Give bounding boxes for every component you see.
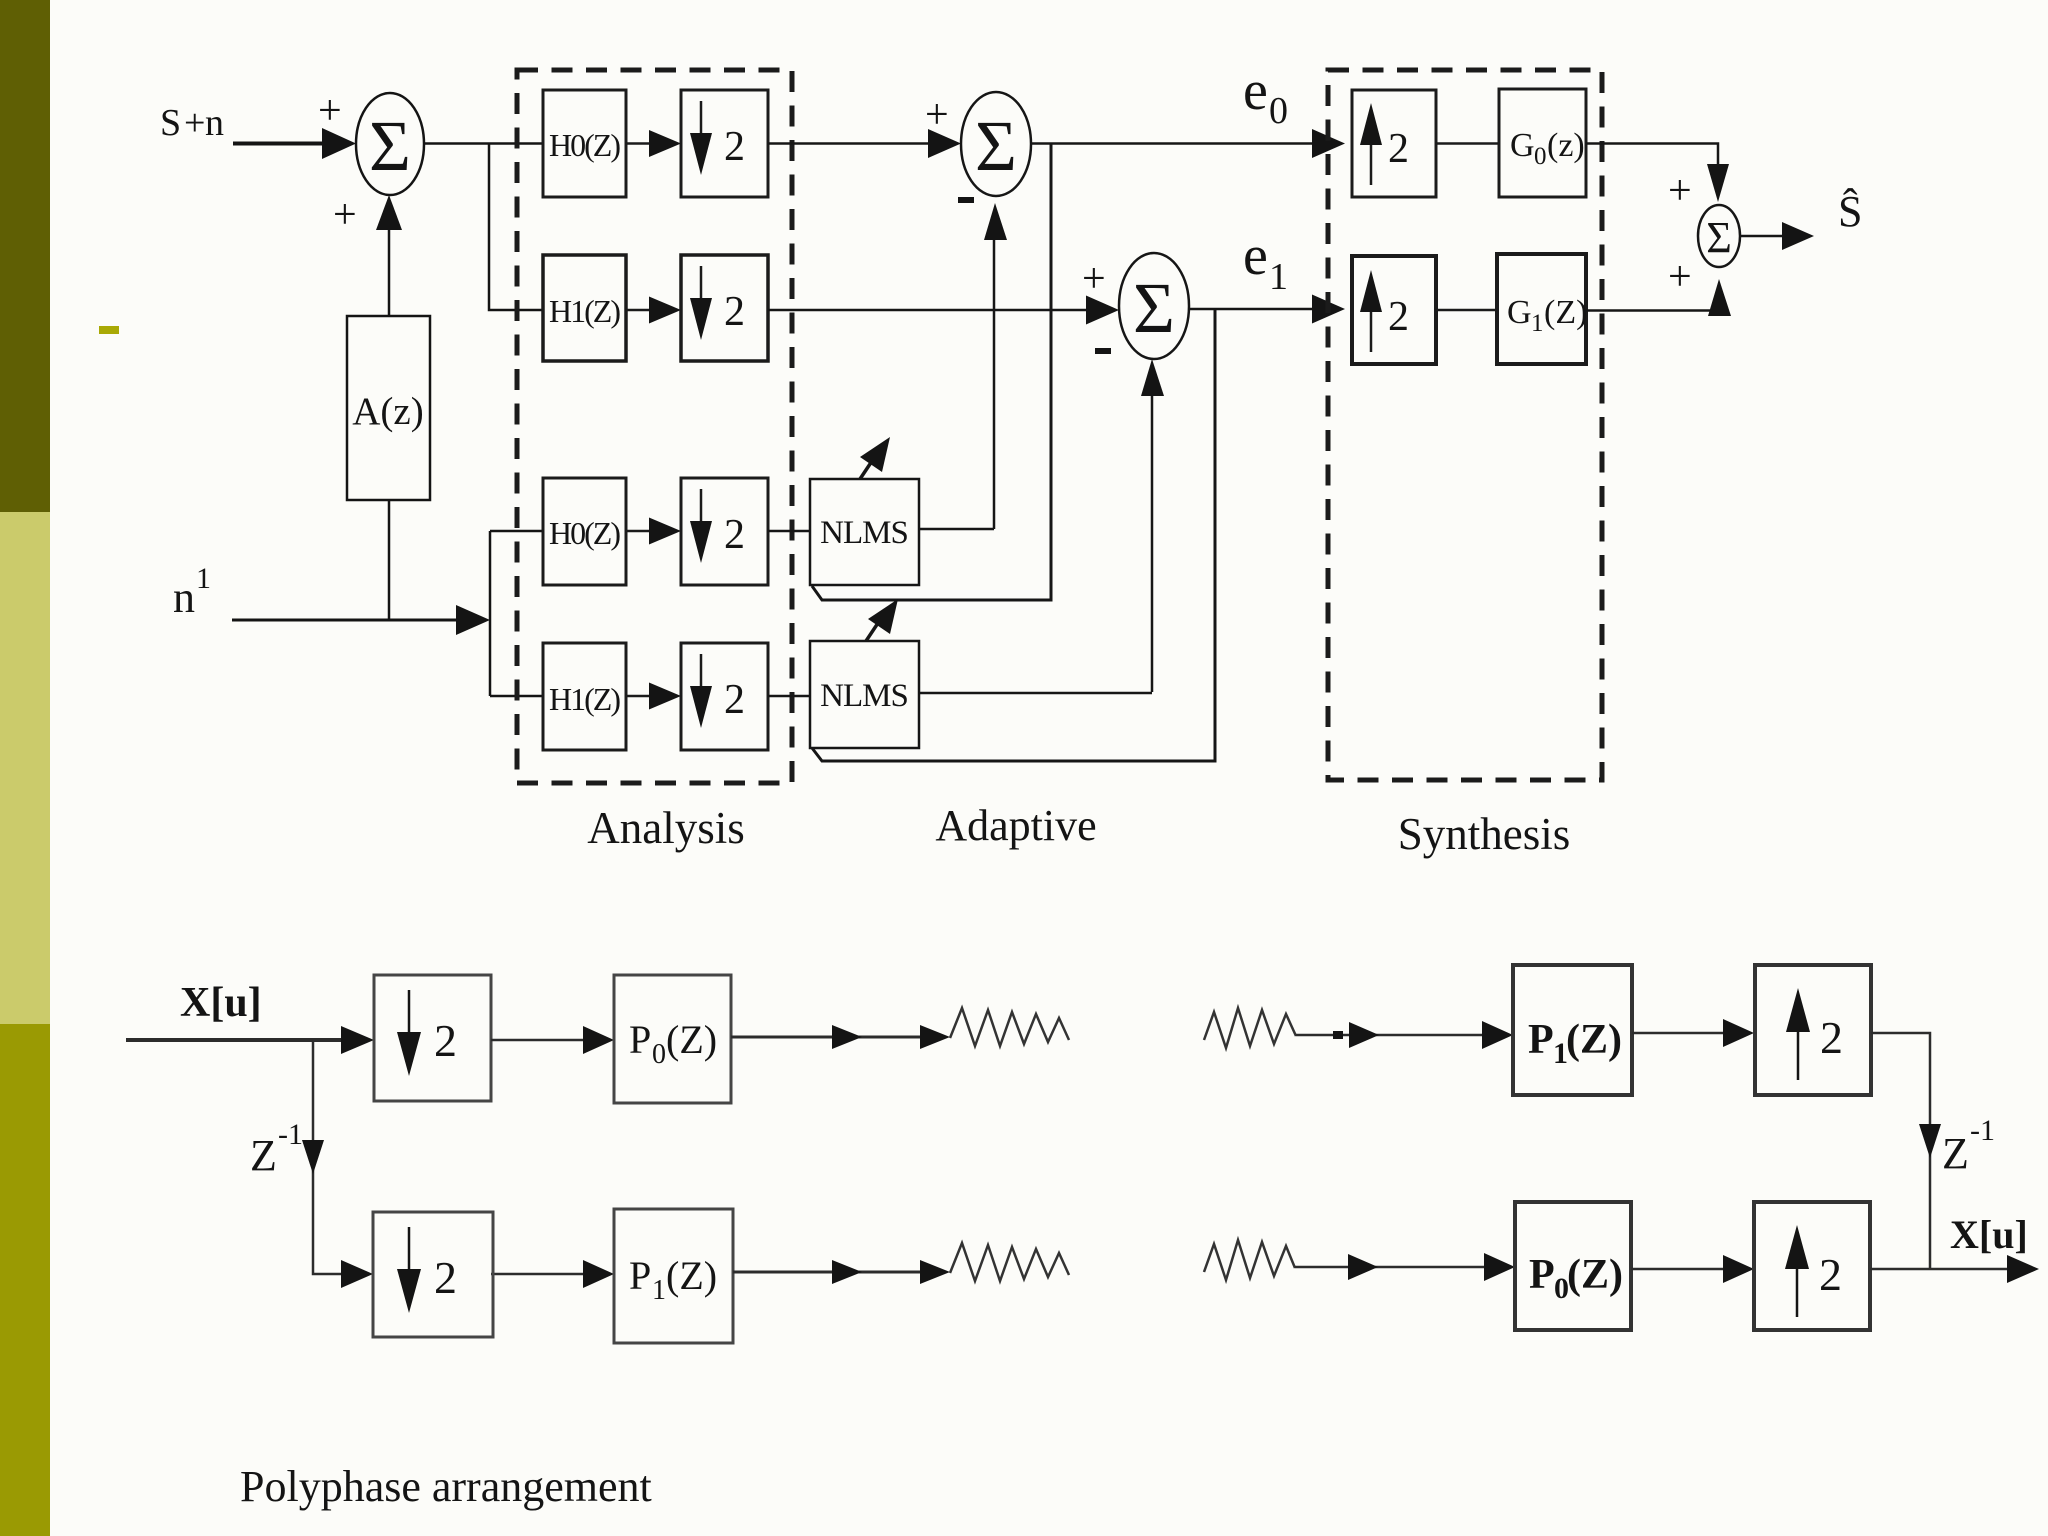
- block H0(Z) top: [543, 90, 626, 197]
- wire U3 output to delay column: [1871, 1033, 1930, 1269]
- svg-text:2: 2: [724, 124, 745, 170]
- wire D3 into NLMS1: [768, 530, 810, 533]
- arrow P0 to upsampler U4: [1631, 1255, 1754, 1283]
- wire G0 output to final summer: [1586, 144, 1729, 203]
- SECTION: bottom-right polyphase synthesis diagram: [1204, 965, 2039, 1330]
- svg-text:Adaptive: Adaptive: [935, 801, 1096, 850]
- svg-text:e: e: [1243, 225, 1268, 287]
- downsampler D4 arrow glyph: [690, 654, 745, 728]
- block P1(Z) right: [1513, 965, 1632, 1095]
- arrow H0 to downsampler D1: [626, 130, 681, 157]
- minus sign at S2 bottom input: [958, 197, 974, 203]
- svg-text:+: +: [1668, 168, 1692, 214]
- wire e0: S2 output to synthesis: [1031, 129, 1345, 158]
- arrow lower H1 to downsampler D4: [626, 683, 681, 710]
- svg-text:+: +: [925, 92, 949, 138]
- summer S2: [961, 92, 1031, 196]
- svg-text:P0(Z): P0(Z): [1529, 1252, 1623, 1305]
- upsampler U2 arrow glyph: [1360, 270, 1409, 352]
- block A(z): [347, 316, 430, 500]
- svg-text:Polyphase arrangement: Polyphase arrangement: [240, 1462, 652, 1511]
- wire S1 to H0 with branch node: [424, 142, 543, 145]
- SECTION: bottom-left polyphase analysis diagram: [126, 975, 1069, 1511]
- upsampler U3 box: [1755, 965, 1871, 1095]
- wire P1 output with arrowheads: [733, 1260, 950, 1284]
- svg-text:NLMS: NLMS: [820, 515, 908, 551]
- svg-text:Analysis: Analysis: [587, 803, 745, 853]
- svg-text:S: S: [160, 102, 181, 144]
- wire NLMS1 output right: [919, 528, 994, 531]
- arrow D5 to P0: [491, 1026, 614, 1054]
- svg-text:X[u]: X[u]: [180, 980, 262, 1026]
- downsampler D3 arrow glyph: [690, 489, 745, 563]
- adapt arrow on NLMS2: [866, 599, 898, 641]
- svg-text:2: 2: [434, 1015, 457, 1066]
- wire into lower H0: [490, 530, 543, 533]
- svg-text:n: n: [205, 102, 224, 144]
- svg-text:2: 2: [1388, 126, 1409, 172]
- block P0(Z) right: [1515, 1202, 1631, 1330]
- svg-text:H0(Z): H0(Z): [549, 515, 620, 551]
- downsampler D5 arrow glyph: [397, 990, 457, 1076]
- arrowhead delay branch mid-line: [302, 1140, 324, 1174]
- svg-text:NLMS: NLMS: [820, 678, 908, 714]
- wire branch column for lower filters: [489, 531, 492, 696]
- arrowhead into downsampler D5: [341, 1260, 373, 1288]
- wire D2 to summer S3: [768, 296, 1119, 325]
- block NLMS2: [810, 641, 919, 748]
- block G1(Z): [1497, 254, 1586, 364]
- squiggle output top-left: [950, 1008, 1069, 1046]
- svg-text:H1(Z): H1(Z): [549, 293, 620, 329]
- arrowhead delay column mid-line: [1919, 1124, 1941, 1158]
- arrow from A(z) into S1 bottom: [388, 210, 391, 316]
- svg-text:-1: -1: [1970, 1114, 1995, 1147]
- wire G1 output up into final summer: [1586, 279, 1731, 316]
- wire into lower H1: [490, 695, 543, 698]
- wire branch column with Z-1 delay: [313, 1040, 347, 1274]
- svg-text:H1(Z): H1(Z): [549, 681, 620, 717]
- block H0(Z) lower: [543, 478, 626, 585]
- arrow P1 to upsampler U3: [1632, 1019, 1754, 1047]
- svg-text:1: 1: [196, 562, 211, 595]
- svg-text:+: +: [1082, 256, 1106, 302]
- arrow S4 output to Shat: [1740, 222, 1814, 250]
- wire squiggle to P0 with arrowheads: [1295, 1253, 1515, 1281]
- arrow final X[n] output: [1870, 1255, 2039, 1283]
- downsampler D1 box: [681, 90, 768, 197]
- svg-text:+: +: [333, 192, 357, 238]
- downsampler D1 arrow glyph: [690, 101, 745, 175]
- upsampler U3 arrow glyph: [1786, 988, 1843, 1080]
- svg-text:+: +: [184, 102, 205, 144]
- dashed box Analysis: [517, 70, 792, 783]
- squiggle output bottom-left: [950, 1243, 1069, 1281]
- svg-text:2: 2: [724, 512, 745, 558]
- svg-text:2: 2: [1820, 1012, 1843, 1063]
- arrow NLMS1 output up into S2: [984, 203, 1007, 529]
- svg-text:2: 2: [1819, 1249, 1842, 1300]
- SECTION: top adaptive filterbank diagram: [160, 88, 543, 696]
- svg-text:e: e: [1243, 60, 1268, 122]
- svg-text:H0(Z): H0(Z): [549, 127, 620, 163]
- minus sign at S3 bottom input: [1095, 348, 1111, 354]
- upsampler U1 box: [1352, 90, 1436, 197]
- squiggle input bottom-right: [1204, 1240, 1295, 1280]
- svg-text:2: 2: [724, 677, 745, 723]
- svg-text:-1: -1: [278, 1118, 303, 1151]
- svg-text:X[u]: X[u]: [1950, 1212, 2028, 1257]
- svg-text:Ŝ: Ŝ: [1838, 187, 1862, 236]
- block P1(Z) left: [614, 1209, 733, 1343]
- squiggle input top-right: [1204, 1008, 1296, 1048]
- downsampler D2 arrow glyph: [690, 266, 745, 340]
- svg-text:Σ: Σ: [1133, 268, 1175, 348]
- upsampler U1 arrow glyph: [1360, 103, 1409, 185]
- svg-text:P1(Z): P1(Z): [1528, 1017, 1622, 1070]
- arrowhead into summer S1: [322, 128, 356, 159]
- svg-text:Σ: Σ: [369, 106, 411, 186]
- svg-text:2: 2: [1388, 294, 1409, 340]
- arrow lower H0 to downsampler D3: [626, 518, 681, 545]
- svg-text:0: 0: [1269, 90, 1288, 132]
- svg-text:P1(Z): P1(Z): [629, 1253, 717, 1306]
- wire branch down to H1 row: [489, 144, 543, 311]
- svg-text:Synthesis: Synthesis: [1398, 809, 1571, 859]
- wire D4 into NLMS2: [768, 695, 810, 698]
- adapt arrow on NLMS1: [860, 437, 890, 479]
- sidebar olive bottom segment: [0, 1024, 50, 1536]
- downsampler D5 box (top row): [374, 975, 491, 1101]
- arrow delay row into P1: [491, 1260, 614, 1288]
- downsampler D6 arrow glyph: [397, 1227, 457, 1313]
- wire U1 to G0: [1436, 142, 1499, 145]
- downsampler D2 box: [681, 255, 768, 361]
- wire e1: S3 output to synthesis: [1189, 295, 1345, 324]
- svg-text:+: +: [318, 88, 342, 134]
- block G0(z): [1499, 89, 1586, 197]
- wire NLMS2 output right: [919, 692, 1152, 695]
- wire squiggle to P1 with arrowheads: [1296, 1021, 1513, 1049]
- arrowhead n1 into branch column: [456, 605, 490, 635]
- wire e0 branch down to NLMS1 underline: [812, 144, 1051, 601]
- upsampler U4 arrow glyph: [1785, 1225, 1842, 1317]
- block H1(Z) lower: [543, 643, 626, 750]
- wire X[n] input: [126, 1026, 374, 1054]
- svg-text:Z: Z: [1942, 1129, 1969, 1178]
- sidebar dark olive top segment: [0, 0, 50, 512]
- block H1(Z) top: [543, 255, 626, 361]
- svg-text:Σ: Σ: [1706, 213, 1732, 262]
- svg-text:2: 2: [434, 1252, 457, 1303]
- svg-text:Z: Z: [250, 1131, 277, 1180]
- svg-text:A(z): A(z): [352, 390, 423, 433]
- wire U2 to G1: [1436, 309, 1497, 312]
- upsampler U2 box: [1352, 256, 1436, 364]
- downsampler D6 box (bottom row): [373, 1212, 493, 1337]
- bullet dash: [99, 326, 119, 334]
- wire n1 input: [232, 619, 458, 622]
- block NLMS1: [810, 479, 919, 585]
- wire S+n input: [233, 142, 330, 146]
- svg-text:G0(z): G0(z): [1510, 127, 1585, 170]
- summer S4: [1698, 205, 1740, 267]
- wire D1 to summer S2: [768, 129, 961, 158]
- wire A(z) down to n1 line: [388, 500, 391, 620]
- summer S1: [356, 93, 424, 195]
- downsampler D3 box: [681, 478, 768, 585]
- sidebar light yellow-green middle segment: [0, 512, 50, 1024]
- downsampler D4 box: [681, 643, 768, 750]
- wire e1 branch down to NLMS2 underline: [812, 309, 1215, 761]
- svg-text:n: n: [173, 573, 195, 622]
- svg-text:+: +: [1668, 254, 1692, 300]
- dashed box Synthesis: [1328, 70, 1602, 780]
- arrow H1 to downsampler D2: [626, 297, 681, 324]
- block P0(Z) left: [614, 975, 731, 1103]
- arrow NLMS2 output up into S3: [1141, 359, 1164, 692]
- wire P0 output with arrowheads: [731, 1025, 950, 1049]
- svg-text:P0(Z): P0(Z): [629, 1017, 717, 1070]
- svg-text:G1(Z): G1(Z): [1507, 294, 1587, 337]
- summer S3: [1119, 253, 1189, 359]
- upsampler U4 box: [1754, 1202, 1870, 1330]
- svg-text:Σ: Σ: [975, 106, 1017, 186]
- svg-text:1: 1: [1269, 256, 1288, 298]
- svg-text:2: 2: [724, 289, 745, 335]
